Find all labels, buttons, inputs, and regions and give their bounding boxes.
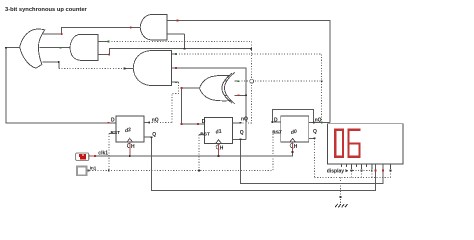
node clk source red (94, 155, 96, 157)
wire AND_A.in2 riser + long solid line y=48.7 (109, 49, 251, 55)
wire XOR output to d1.D (181, 88, 204, 124)
node (108.8,170.4) (108, 170, 110, 172)
node (109.3,54.6) red (108, 54, 110, 56)
wire d1 Q stub to feedback and display (233, 138, 247, 140)
wire AND_B.in1 long top line to display top-left (178, 20, 330, 122)
and-gate B body (140, 15, 167, 40)
wire d0 D loop from nQ (272, 109, 313, 122)
wire d0 Q dotted down (309, 137, 315, 139)
wire dotted XOR.in1 to x=321.7 column (239, 80, 322, 82)
svg-text:H: H (220, 146, 224, 152)
display pins ticks (341, 164, 390, 169)
node clk junction d2 (129, 155, 131, 157)
node (321.7,122.5) green (321, 122, 323, 124)
svg-text:clk1: clk1 (98, 150, 108, 156)
and-gate A (2-input, mirrored left-facing) stubs (98, 41, 109, 43)
node d2.nQ dot (149,122.5) (148, 122, 150, 124)
wire d2 RST dotted column (108, 133, 110, 170)
wire dotted ground line under display (315, 176, 391, 178)
node (240.4,139.3) (240, 138, 242, 140)
clock C glyph d1 (216, 145, 219, 150)
svg-text:H: H (131, 144, 135, 150)
input button component in1 (77, 166, 97, 176)
wire AND_B output to OR.in1 (43, 28, 140, 34)
node clk junction d1 (218, 155, 220, 157)
wire dotted ground drop (340, 177, 342, 203)
clock triangle d1 (216, 140, 222, 144)
ground symbol hatch (335, 204, 348, 207)
seven-seg digit 0 (335, 130, 343, 157)
wire d1 RST dotted column (199, 134, 205, 136)
svg-text:in1: in1 (90, 166, 97, 171)
display pin dots (351, 170, 353, 172)
clock triangle d0 (290, 138, 296, 142)
node mid segment (130.7,27.6) red (130, 27, 132, 29)
clock C glyph d2 (127, 143, 130, 148)
and-gate B (2-input) stubs (167, 19, 178, 21)
node (151.5,137.2) (151, 136, 153, 138)
node (176.1,82.2) green (175, 81, 177, 83)
node (108.6,41.5) green (108, 41, 110, 43)
node corner (61.7,34.1) red (61, 33, 63, 35)
wire d2 clock stub red (129, 142, 131, 156)
svg-text:D: D (202, 119, 206, 125)
node (199,170.4) (198, 170, 200, 172)
node (181.4,124) red (181, 123, 183, 125)
wire AND_C output to OR.in3 (partly dotted) (43, 61, 59, 63)
node clk end d0 (292, 151, 294, 153)
node ground (340, 196, 342, 198)
flip-flop d1 (200, 117, 248, 152)
svg-text:D: D (111, 117, 115, 123)
wire dotted nQ0 net: ANDC.in1 right to x=321.7 down to d0.nQ (176, 54, 322, 122)
wire AND_A output to OR.in2 (39, 47, 69, 49)
and-gate A body (70, 34, 98, 60)
node (176.1,54.1) green (175, 53, 177, 55)
node (313.7,122.5) (313, 122, 315, 124)
wire dotted display enable line (350, 169, 372, 171)
wire AND_B.in2 drop to y=48.7 line (184, 34, 186, 49)
svg-text:Q: Q (240, 130, 244, 136)
wire d0 clock stub red (292, 142, 294, 152)
wire dotted nQ2 net: ANDC.in3 down-jog-left to d2.nQ (172, 82, 179, 122)
node (124.6,68.4) (124, 68, 126, 70)
wire clk line (95, 152, 293, 156)
node pin Q0 dark (390, 170, 392, 172)
and-gate C body (133, 51, 171, 86)
node (314.5,138.3) (314, 137, 316, 139)
svg-text:display: display (327, 169, 344, 175)
wire d1 nQ stub (233, 122, 241, 124)
clock C glyph d0 (290, 143, 293, 148)
node XOR.in1 dot (238.6,81.2) green (238, 80, 240, 82)
wire d0 RST stub (273, 132, 281, 134)
node (240.6,122.8) (240, 122, 242, 124)
wire d2 Q to display pin6 (144, 137, 375, 190)
node line end (251,48.7) (250, 48, 252, 50)
wire Q1 net: ANDC.in2 right, down x=246 to d1.Q (176, 68, 246, 139)
node (60.6,47.7) green (60, 47, 62, 49)
xor-gate second arc (225, 73, 235, 104)
flip-flop d2 (111, 116, 159, 150)
svg-text:3-bit synchronous up counter: 3-bit synchronous up counter (5, 7, 88, 13)
wire d1 clock stub red (218, 144, 220, 157)
node (177.6,20.4) red (177, 20, 179, 22)
display component (327, 124, 403, 175)
svg-text:Q: Q (152, 132, 156, 138)
and-gate C (3-input) stubs (171, 53, 176, 55)
node pin Q2 red (375, 170, 377, 172)
node (58.8,61.9) (58, 61, 60, 63)
wire net D2 loop: OR output down-left to d2.D (6, 48, 116, 123)
seven-seg digit 6 (349, 130, 361, 157)
node OR output corner (5, 47, 7, 49)
node crossing circle at (251.7,81.2) (250, 79, 254, 83)
node XOR.in2 dot (238.6,95.3) red (238, 94, 240, 96)
flip-flop d0 (272, 116, 321, 150)
clock input component clk1 (76, 150, 109, 160)
node (246,95.3) junction (245, 94, 247, 96)
or-gate OR1 (3-input, mirrored left-facing) (20, 29, 45, 68)
svg-text:H: H (294, 144, 298, 150)
node (184.6,48.7) (184, 48, 186, 50)
node d1.D pin red (197, 123, 199, 125)
xor-gate stubs (222, 80, 239, 82)
node (321.7,81.2) junction (321, 80, 323, 82)
node pin Q1 red (382, 170, 384, 172)
node (181.4,88.1) red (181, 87, 183, 89)
clock triangle d2 (127, 138, 133, 142)
xor-gate body (200, 75, 230, 101)
wire XOR.in2 tap stub (222, 94, 247, 96)
svg-text:nQ: nQ (241, 117, 248, 123)
svg-text:Q: Q (313, 129, 317, 135)
wire dotted pin drops (351, 171, 390, 178)
node (272.3,121.9) (271, 121, 273, 123)
wire d0 nQ stub (309, 122, 330, 124)
wire dotted nQ1 net: y=41.6 from AND_A.in1 to x=251.6 down to d1.nQ (109, 42, 252, 123)
node d2.D pin (red) (108, 122, 110, 124)
wire in1 dotted net with risers (90, 133, 273, 171)
node (176.1,68) red (175, 67, 177, 69)
wire d2 nQ stub (144, 122, 149, 124)
